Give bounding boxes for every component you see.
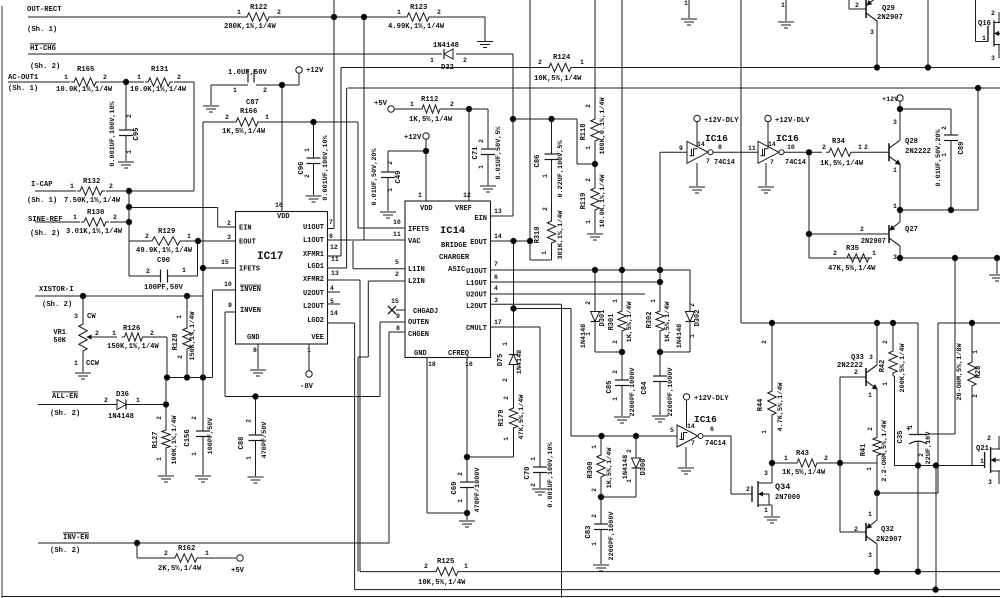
- svg-text:Q28: Q28: [905, 138, 918, 146]
- wire D75 branch: [513, 241, 515, 355]
- capacitor C90 100PF: [160, 270, 162, 283]
- wire top vertical x=928: [927, 0, 929, 68]
- ground at inverter B: [765, 163, 767, 186]
- wire inverter1 input from L1OUT: [659, 152, 661, 282]
- resistor R132: [77, 187, 105, 195]
- svg-text:1: 1: [205, 550, 209, 557]
- resistor R124: [546, 63, 574, 71]
- svg-text:IFETS: IFETS: [239, 266, 260, 274]
- wire R34 to Q28 base: [854, 151, 889, 153]
- wire x=918 C35 chain: [917, 323, 919, 434]
- svg-text:50K: 50K: [53, 337, 66, 345]
- svg-text:2: 2: [538, 59, 542, 66]
- svg-text:1: 1: [182, 267, 186, 274]
- svg-text:CHGEN: CHGEN: [408, 331, 429, 339]
- svg-text:2: 2: [746, 486, 750, 493]
- svg-text:2: 2: [246, 419, 253, 423]
- svg-text:IC14: IC14: [440, 225, 465, 237]
- svg-text:VAC: VAC: [408, 238, 421, 246]
- ground at C70: [532, 488, 548, 490]
- svg-text:C87: C87: [246, 99, 259, 107]
- svg-text:1N4148: 1N4148: [516, 350, 524, 374]
- wire busR riser x=938: [937, 323, 939, 493]
- svg-text:10K,5%,1/4W: 10K,5%,1/4W: [418, 579, 466, 587]
- wire LGD2 to bottom bus: [327, 322, 355, 324]
- svg-text:IC16: IC16: [694, 414, 717, 425]
- svg-text:1: 1: [684, 0, 688, 7]
- wire Q33 collector to bus: [876, 323, 878, 365]
- wire net y=377.5 to INVEN-bar pin10: [167, 377, 213, 379]
- svg-text:1: 1: [410, 101, 414, 108]
- svg-text:D36: D36: [116, 391, 129, 399]
- svg-text:2: 2: [824, 455, 828, 462]
- capacitor C96 0.001UF: [307, 157, 321, 159]
- wire L2OUT net off-page: [491, 303, 562, 305]
- wire XISTOR-I net: [35, 295, 203, 297]
- capacitor C88 470PF: [249, 434, 263, 436]
- svg-text:+5V: +5V: [374, 100, 388, 108]
- resistor R118: [594, 0, 596, 116]
- wire R112 output: [394, 108, 419, 110]
- wire L1IN fed from VAC: [352, 241, 354, 269]
- svg-text:1: 1: [112, 330, 116, 337]
- svg-text:4: 4: [494, 285, 498, 292]
- svg-text:1: 1: [585, 220, 592, 224]
- svg-text:6: 6: [329, 233, 333, 240]
- svg-text:10: 10: [787, 144, 795, 151]
- op-amp IC14 BRIDGE CHARGER ASIC box: [405, 201, 491, 358]
- wire C95 net: [125, 82, 127, 130]
- svg-text:47K,5%,1/4W: 47K,5%,1/4W: [828, 265, 876, 273]
- svg-text:VREF: VREF: [455, 205, 472, 213]
- ground at C87: [203, 105, 219, 107]
- terminal +5V: [388, 106, 394, 112]
- wire Q28 collector to +12V: [899, 109, 901, 140]
- wire Q32 collector to bus: [876, 544, 878, 572]
- ground at C156: [195, 475, 211, 477]
- wire Q27 base: [809, 233, 889, 235]
- svg-text:1: 1: [191, 452, 198, 456]
- wire C71 to ground: [487, 155, 489, 186]
- diode D75 1N4148: [509, 354, 518, 356]
- svg-text:2: 2: [612, 340, 619, 344]
- svg-text:(Sh. 2): (Sh. 2): [30, 230, 60, 238]
- svg-text:150K,1%,1/4W: 150K,1%,1/4W: [189, 311, 197, 361]
- svg-text:15: 15: [221, 259, 229, 266]
- svg-text:470PF/50V: 470PF/50V: [261, 421, 269, 459]
- svg-text:1: 1: [626, 479, 633, 483]
- svg-text:1K,5%,1/4W: 1K,5%,1/4W: [606, 447, 614, 489]
- svg-text:1: 1: [585, 332, 592, 336]
- svg-text:1: 1: [893, 167, 897, 174]
- resistor R162: [172, 554, 200, 562]
- svg-text:U2OUT: U2OUT: [466, 292, 487, 300]
- svg-text:IC16: IC16: [705, 133, 728, 144]
- svg-text:1: 1: [530, 457, 537, 461]
- svg-text:1: 1: [478, 165, 485, 169]
- svg-text:D300: D300: [640, 459, 648, 476]
- svg-text:1: 1: [761, 430, 768, 434]
- wire C156 branch: [202, 378, 204, 432]
- svg-text:EIN: EIN: [239, 225, 252, 233]
- ground at inverter A: [696, 163, 698, 186]
- svg-text:2: 2: [530, 483, 537, 487]
- svg-text:LGD1: LGD1: [307, 263, 324, 271]
- svg-text:74C14: 74C14: [705, 440, 726, 448]
- ground at R123: [477, 41, 493, 43]
- svg-text:2: 2: [591, 488, 598, 492]
- svg-text:3: 3: [870, 29, 874, 36]
- terminal +12V-DLY inverter C: [683, 394, 689, 400]
- wire Q29 base: [849, 8, 866, 10]
- resistor R42: [892, 323, 894, 348]
- svg-text:1: 1: [591, 445, 598, 449]
- svg-text:R128: R128: [172, 334, 180, 351]
- wire Q33 base: [840, 376, 866, 378]
- svg-text:R132: R132: [83, 178, 100, 186]
- svg-text:1: 1: [457, 499, 464, 503]
- svg-text:14: 14: [330, 310, 338, 317]
- svg-text:3: 3: [991, 55, 995, 62]
- svg-text:1N4148: 1N4148: [676, 324, 684, 348]
- svg-text:2: 2: [854, 369, 858, 376]
- svg-text:47K,5%,1/4W: 47K,5%,1/4W: [518, 394, 526, 440]
- wire U1OUT net: [491, 269, 661, 271]
- resistor R301: [621, 0, 623, 270]
- svg-text:49.9K,1%,1/4W: 49.9K,1%,1/4W: [136, 247, 193, 255]
- capacitor C156 100PF: [196, 430, 210, 432]
- svg-text:R43: R43: [796, 450, 809, 458]
- svg-text:(Sh. 1): (Sh. 1): [27, 26, 57, 34]
- svg-text:470PF/1000V: 470PF/1000V: [474, 467, 482, 513]
- wire U2OUT stub IC14: [491, 293, 646, 295]
- wire to IC17 EIN: [129, 207, 218, 209]
- svg-text:16: 16: [465, 361, 473, 368]
- svg-text:100K,0.1%,1/4W: 100K,0.1%,1/4W: [599, 97, 607, 155]
- svg-text:R301: R301: [608, 314, 616, 331]
- svg-text:1: 1: [689, 334, 696, 338]
- svg-text:R130: R130: [87, 209, 104, 217]
- resistor R125: [433, 567, 461, 575]
- resistor R123: [404, 13, 432, 21]
- svg-text:C86: C86: [534, 155, 542, 168]
- svg-text:C88: C88: [238, 437, 246, 450]
- ground at C84: [652, 415, 668, 417]
- svg-text:3.01K,1%,1/4W: 3.01K,1%,1/4W: [66, 228, 123, 236]
- terminal +12V at IC14 VDD: [423, 133, 429, 139]
- svg-text:GND: GND: [414, 350, 427, 358]
- svg-text:R34: R34: [832, 138, 846, 146]
- svg-text:SINE-REF: SINE-REF: [28, 216, 63, 224]
- svg-text:14: 14: [494, 233, 502, 240]
- ground at C49: [380, 211, 396, 213]
- svg-text:74C14: 74C14: [785, 159, 806, 167]
- svg-text:10.0K,1%,1/4W: 10.0K,1%,1/4W: [130, 86, 187, 94]
- svg-text:1: 1: [784, 455, 788, 462]
- svg-text:R35: R35: [846, 245, 859, 253]
- wire IC17 pin6 L1OUT: [327, 239, 364, 241]
- svg-text:1: 1: [70, 183, 74, 190]
- svg-text:1: 1: [580, 59, 584, 66]
- svg-text:(Sh. 2): (Sh. 2): [50, 547, 80, 555]
- svg-text:1: 1: [591, 542, 598, 546]
- svg-text:EIN: EIN: [474, 215, 487, 223]
- svg-text:OUTEN: OUTEN: [408, 319, 429, 327]
- svg-text:1: 1: [650, 299, 657, 303]
- no-connect X at CHGADJ: [388, 306, 396, 314]
- svg-text:Q32: Q32: [881, 526, 894, 534]
- wire inverter A out to B: [713, 151, 758, 153]
- svg-text:1: 1: [882, 382, 889, 386]
- capacitor C49 0.01UF: [381, 171, 395, 173]
- svg-text:15: 15: [391, 298, 399, 305]
- ground at C85: [614, 416, 630, 418]
- diode D32 1N4148: [443, 49, 445, 59]
- wire OUT-RECT vertical to VAC: [363, 17, 365, 240]
- wire SINE-REF net: [35, 221, 80, 223]
- svg-text:+12V: +12V: [306, 67, 324, 75]
- svg-text:R310: R310: [534, 227, 542, 244]
- op-amp IC16 inverter C 74C14: [677, 425, 698, 447]
- wire Q21 gate feed riser: [935, 466, 937, 590]
- capacitor C89 0.01UF: [944, 134, 958, 136]
- svg-text:2: 2: [150, 330, 154, 337]
- svg-text:13: 13: [331, 270, 339, 277]
- svg-text:R165: R165: [77, 66, 94, 74]
- svg-text:C84: C84: [641, 381, 649, 395]
- svg-text:1K,5%,1/4W: 1K,5%,1/4W: [820, 160, 864, 168]
- svg-text:10K,5%,1/4W: 10K,5%,1/4W: [534, 75, 582, 83]
- ground at C71: [480, 185, 496, 187]
- wire R43 node rail y=463: [772, 462, 794, 464]
- svg-text:R44: R44: [757, 399, 765, 412]
- svg-text:2: 2: [585, 104, 592, 108]
- svg-text:2: 2: [860, 226, 864, 233]
- svg-text:1: 1: [612, 299, 619, 303]
- svg-text:2: 2: [177, 74, 181, 81]
- svg-text:CW: CW: [87, 313, 96, 321]
- svg-text:2: 2: [304, 174, 311, 178]
- svg-text:2: 2: [103, 74, 107, 81]
- svg-text:17: 17: [494, 319, 502, 326]
- svg-text:4.99K,1%,1/4W: 4.99K,1%,1/4W: [388, 23, 445, 31]
- svg-text:Q16: Q16: [978, 20, 991, 28]
- svg-text:C89: C89: [958, 142, 966, 155]
- svg-text:1K,5%,1/4W: 1K,5%,1/4W: [222, 128, 266, 136]
- svg-text:R42: R42: [879, 360, 887, 373]
- svg-text:ASIC: ASIC: [448, 266, 466, 274]
- wire CFREQ to C69: [466, 358, 468, 458]
- wire IC14 GND to ground: [426, 358, 428, 514]
- svg-text:L1IN: L1IN: [408, 266, 425, 274]
- wire +12V bus (y=67): [341, 67, 546, 69]
- svg-text:R119: R119: [580, 193, 588, 210]
- op-amp IC17 box: [236, 212, 328, 345]
- ground at R127: [158, 475, 174, 477]
- wire IFETS IC17 net: [203, 267, 236, 269]
- svg-text:7: 7: [691, 440, 695, 447]
- svg-text:C49: C49: [395, 171, 403, 184]
- svg-text:3: 3: [988, 479, 992, 486]
- svg-text:2: 2: [612, 370, 619, 374]
- wire U2OUT stub: [327, 291, 340, 293]
- ground at inverter C: [685, 447, 687, 467]
- wire Q32 emitter node: [876, 463, 878, 493]
- ground at C96: [306, 195, 322, 197]
- resistor R129: [149, 237, 183, 245]
- wire Q32 emitter: [876, 493, 878, 520]
- svg-text:IFETS: IFETS: [408, 226, 429, 234]
- wire U1OUT to D302: [660, 269, 690, 271]
- svg-text:150K,1%,1/4W: 150K,1%,1/4W: [107, 343, 159, 351]
- svg-text:11: 11: [748, 145, 756, 152]
- svg-text:(Sh. 2): (Sh. 2): [30, 63, 60, 71]
- svg-text:0.01UF,50V,5%: 0.01UF,50V,5%: [495, 126, 503, 180]
- svg-text:L1OUT: L1OUT: [466, 280, 487, 288]
- svg-text:1: 1: [74, 360, 78, 367]
- svg-text:C35: C35: [897, 431, 905, 444]
- wire R162 branch: [136, 543, 138, 558]
- svg-text:1: 1: [542, 174, 549, 178]
- svg-text:2: 2: [225, 114, 229, 121]
- svg-text:R302: R302: [646, 312, 654, 329]
- svg-text:2: 2: [941, 126, 948, 130]
- svg-text:R131: R131: [151, 66, 169, 74]
- svg-text:1: 1: [858, 144, 862, 151]
- transistor Q32 2N2907: [865, 523, 867, 541]
- svg-text:+12V: +12V: [882, 96, 899, 104]
- svg-text:2: 2: [263, 87, 267, 94]
- svg-text:2N2907: 2N2907: [877, 14, 903, 22]
- svg-text:2: 2: [227, 220, 231, 227]
- svg-text:14: 14: [687, 423, 695, 430]
- svg-text:1: 1: [233, 87, 237, 94]
- svg-text:+12V-DLY: +12V-DLY: [694, 395, 729, 403]
- svg-text:3: 3: [893, 254, 897, 261]
- svg-text:2.2-OHM,5%,1/4W: 2.2-OHM,5%,1/4W: [881, 419, 889, 481]
- wire HI-CHG net: [28, 53, 442, 55]
- resistor R166: [233, 118, 261, 126]
- svg-text:C69: C69: [451, 482, 459, 495]
- ground at IC17 GND: [250, 369, 266, 371]
- svg-text:1.0UF,50V: 1.0UF,50V: [228, 69, 268, 77]
- svg-text:7: 7: [770, 159, 774, 166]
- transistor Q29 2N2907: [865, 0, 867, 18]
- svg-text:C83: C83: [585, 526, 593, 539]
- svg-text:R125: R125: [437, 558, 454, 566]
- svg-text:L2OUT: L2OUT: [303, 303, 324, 311]
- svg-text:2: 2: [164, 550, 168, 557]
- svg-text:12: 12: [463, 192, 471, 199]
- wire C88 branch: [255, 397, 257, 436]
- wire L1OUT net: [491, 281, 661, 283]
- wire mid bus y=323 right segment: [938, 322, 1000, 324]
- svg-text:EOUT: EOUT: [239, 239, 256, 247]
- svg-text:2200PF,1000V: 2200PF,1000V: [667, 367, 675, 417]
- wire mid bus y=323 left segment: [741, 322, 918, 324]
- terminal -8V: [306, 371, 312, 377]
- svg-text:1: 1: [893, 203, 897, 210]
- svg-text:R124: R124: [553, 54, 571, 62]
- capacitor C35 22UF polarized: [909, 434, 927, 436]
- svg-text:2200PF,1000V: 2200PF,1000V: [629, 367, 637, 417]
- wire CMULT to C70: [491, 326, 541, 328]
- svg-text:+12V: +12V: [404, 134, 422, 142]
- resistor R28: [971, 323, 973, 359]
- svg-text:2: 2: [864, 144, 868, 151]
- svg-text:C96: C96: [298, 162, 306, 175]
- svg-text:ALL-EN: ALL-EN: [52, 393, 78, 401]
- wire OUT-RECT net: [28, 16, 244, 18]
- svg-text:2N2222: 2N2222: [905, 148, 931, 156]
- svg-text:VDD: VDD: [420, 205, 433, 213]
- svg-text:3: 3: [74, 313, 78, 320]
- capacitor C71 0.01UF: [481, 148, 495, 150]
- sheet border bottom: [2, 596, 1000, 598]
- capacitor C86 0.22UF: [551, 119, 553, 154]
- capacitor C85 2200PF: [621, 352, 623, 380]
- svg-text:2K,5%,1/4W: 2K,5%,1/4W: [158, 565, 202, 573]
- wire L2IN riser: [367, 281, 369, 357]
- svg-text:2: 2: [437, 9, 441, 16]
- wire Q27 emitter to node: [899, 210, 901, 222]
- svg-text:1N4148: 1N4148: [622, 455, 630, 479]
- wire IC17 GND: [257, 344, 259, 370]
- svg-text:R129: R129: [158, 228, 175, 236]
- svg-text:11: 11: [393, 231, 401, 238]
- svg-text:3: 3: [868, 552, 872, 559]
- svg-text:1: 1: [64, 74, 68, 81]
- svg-text:XISTOR-I: XISTOR-I: [39, 286, 74, 294]
- wire AC-OUT1 net: [8, 81, 70, 83]
- svg-text:301K,1%,1/4W: 301K,1%,1/4W: [557, 210, 565, 260]
- svg-text:2: 2: [277, 9, 281, 16]
- svg-text:L2OUT: L2OUT: [466, 303, 487, 311]
- svg-text:+5V: +5V: [231, 567, 245, 575]
- svg-text:1: 1: [126, 150, 133, 154]
- terminal +5V at R162: [237, 555, 243, 561]
- svg-text:XFMR1: XFMR1: [303, 251, 324, 259]
- wire L2OUT stub: [327, 303, 340, 305]
- svg-text:14: 14: [697, 141, 705, 148]
- svg-text:R123: R123: [410, 4, 427, 12]
- svg-text:10.0K,1%,1/4W: 10.0K,1%,1/4W: [599, 174, 607, 228]
- svg-text:20-OHM,5%,1/8W: 20-OHM,5%,1/8W: [956, 343, 964, 401]
- transistor Q33 2N2222: [865, 368, 867, 386]
- svg-text:1: 1: [541, 251, 548, 255]
- wire C87 left to ground: [211, 84, 248, 86]
- svg-text:D302: D302: [694, 310, 702, 327]
- svg-text:2N7000: 2N7000: [775, 494, 800, 502]
- svg-text:2: 2: [457, 472, 464, 476]
- wire bottom bus y=571: [360, 571, 433, 573]
- svg-text:1: 1: [868, 392, 872, 399]
- svg-text:+12V-DLY: +12V-DLY: [704, 117, 739, 125]
- svg-text:AC-OUT1: AC-OUT1: [8, 74, 39, 82]
- svg-text:R179: R179: [498, 410, 506, 427]
- svg-text:-8V: -8V: [300, 383, 314, 391]
- svg-text:R127: R127: [152, 432, 160, 449]
- svg-text:11: 11: [331, 256, 339, 263]
- svg-text:1: 1: [941, 153, 948, 157]
- svg-text:1K,5%,1/4W: 1K,5%,1/4W: [782, 469, 826, 477]
- terminal +12V-DLY inverter A: [694, 115, 700, 121]
- svg-text:2: 2: [126, 114, 133, 118]
- svg-text:3: 3: [227, 234, 231, 241]
- resistor R126: [122, 333, 146, 341]
- ground right end y=258: [989, 274, 1000, 276]
- svg-text:1: 1: [503, 437, 510, 441]
